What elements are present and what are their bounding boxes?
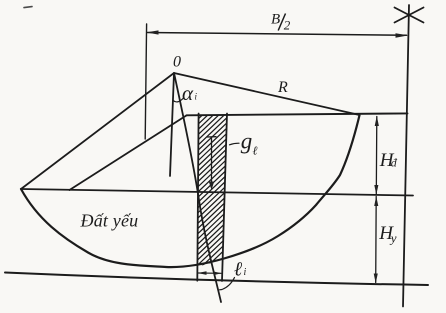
soil bottom line — [5, 273, 428, 286]
weight vector g_i crossbar — [207, 136, 216, 138]
label B/2 — [271, 12, 291, 33]
svg-text:ℓ: ℓ — [253, 144, 258, 158]
svg-text:0: 0 — [173, 54, 181, 71]
svg-text:α: α — [182, 81, 194, 105]
svg-text:2: 2 — [284, 18, 291, 33]
dimension B/2 — [148, 33, 407, 36]
slip circle arc — [21, 115, 360, 267]
embankment crest line — [187, 113, 408, 115]
vertical slice: right edge — [222, 114, 227, 282]
angle arc alpha_i — [173, 98, 184, 102]
dimension l_i left arrowhead — [198, 271, 207, 275]
svg-text:Đất yếu: Đất yếu — [80, 211, 139, 231]
survey star marker — [395, 8, 424, 23]
svg-text:y: y — [389, 231, 397, 246]
svg-text:g: g — [241, 129, 253, 154]
vertical slice: hatching — [195, 61, 232, 278]
leader for g_i — [230, 143, 240, 145]
dimension l_i line — [198, 272, 221, 274]
svg-text:B: B — [271, 12, 280, 28]
radius through slice (alpha_i direction) — [174, 73, 221, 302]
dimension l_i right arrowhead — [214, 272, 222, 276]
svg-text:R: R — [277, 79, 288, 96]
svg-text:đ: đ — [391, 156, 398, 170]
dimension H_y vertical line — [375, 197, 378, 283]
line O to left toe — [21, 73, 174, 189]
weight vector g_i arrowhead — [209, 182, 214, 191]
vertical reference line through O — [170, 73, 174, 176]
radius line R to arc end — [174, 73, 360, 115]
stray dash top-left — [24, 7, 32, 8]
ground surface line — [21, 189, 413, 196]
svg-text:ℓ: ℓ — [234, 259, 243, 281]
leader curve for l_i — [220, 278, 235, 290]
svg-text:i: i — [244, 267, 247, 278]
embankment slope line — [70, 115, 187, 190]
left extension line — [145, 24, 146, 139]
vertical slice: left edge — [197, 114, 198, 281]
dimension H_d vertical line — [375, 117, 378, 195]
weight vector g_i shaft — [211, 137, 213, 186]
right extension line (from star down) — [403, 5, 409, 307]
